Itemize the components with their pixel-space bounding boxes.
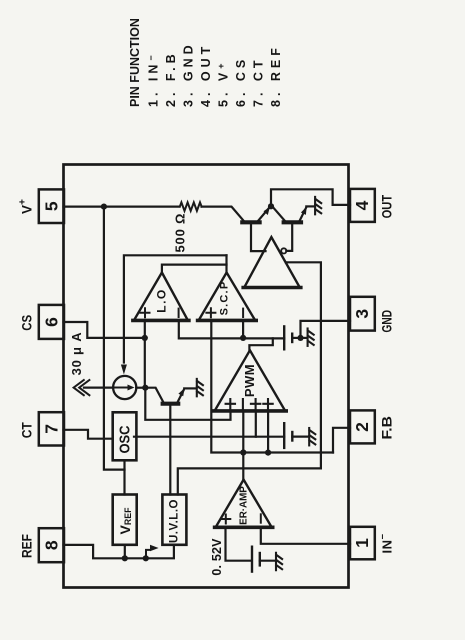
arrow chevrons current source output [74,380,90,395]
IC body outline [64,165,349,588]
pin 4 box [350,189,375,222]
wire Q3 base to UVLO [169,406,171,495]
UVLO box [162,495,186,545]
wire VREF bottom stub [124,545,126,559]
svg-text:L.O: L.O [155,288,169,313]
comparator U4 minus mark [260,514,262,522]
capacitor C2 at PWM [284,423,308,448]
wire driver feedback tap [178,262,321,494]
node S.C.P minus junction [240,335,246,341]
wire top rail above comparators [124,255,227,362]
wire Q1 base [251,224,266,251]
pin 1 box [350,527,375,560]
wire resistor to Q1 [202,207,244,221]
wire ER AMP plus input to reference [226,527,252,560]
comparator U2 S.C.P [198,273,257,321]
wire GND riser to pin 3 [301,321,351,338]
svg-text:7. CT: 7. CT [251,56,265,107]
wire CT from pin 7 to OSC [64,430,113,439]
wire V+ rail from pin 5 [64,206,180,208]
svg-text:OSC: OSC [116,425,133,453]
pin 6 box [39,305,64,339]
wire current source output left [84,387,113,389]
capacitor C1 near GND [284,326,300,349]
comparator U1 L.O [133,273,189,321]
comparator U2 plus mark [206,308,215,317]
wire L.O plus input / current source feed [144,322,146,388]
comparator U4 plus mark [221,515,230,524]
node PWM input 4 junction [265,450,271,456]
comparator U4 ER AMP [215,480,273,528]
comparator U3 input marks + - + + [226,399,273,408]
transistor Q3 [145,388,196,404]
svg-text:4: 4 [352,200,372,210]
svg-text:3: 3 [352,309,372,319]
svg-text:2: 2 [352,422,372,432]
wire ER AMP minus input to pin 1 [261,527,350,544]
regulator VREF box [113,495,137,545]
wire PWM output riser to cap line [249,338,272,350]
wire PWM input 3 stub [255,412,257,437]
wire current source to Q3 [136,387,145,389]
wire CS from pin 6 [64,322,145,338]
svg-text:6: 6 [42,317,62,327]
wire L.O minus to capacitor line [179,322,284,339]
ground G1 at Q2 emitter [315,197,321,214]
wire L.O output riser [162,265,227,273]
svg-text:REF: REF [19,534,34,558]
wire to ground G3 [301,337,307,339]
wire Q2 emitter to ground [306,205,314,207]
node CS junction [142,335,148,341]
svg-text:F.B: F.B [379,416,394,440]
svg-text:PWM: PWM [242,364,257,397]
svg-text:PIN FUNCTION: PIN FUNCTION [128,18,142,107]
comparator U1 plus mark [141,308,150,317]
wire OSC output to capacitor C2 [134,436,284,438]
svg-text:CT: CT [19,422,34,439]
pin 7 box [39,412,64,445]
svg-text:7: 7 [42,424,62,434]
svg-text:U.V.L.O: U.V.L.O [169,499,181,543]
wire OSC to VREF vertical [123,461,125,494]
node PWM input 2 junction [240,449,246,455]
svg-text:ER·AMP: ER·AMP [239,486,250,525]
svg-text:0. 52V: 0. 52V [210,538,224,576]
buffer U5 driver triangle [243,237,301,287]
transistor Q1 [242,207,270,222]
svg-text:500 Ω: 500 Ω [173,213,188,253]
node current source junction [142,385,148,391]
comparator U2 minus mark [242,309,244,317]
arrow into current source [121,365,127,375]
ground G2 at Q3 emitter [197,379,203,396]
svg-text:CS: CS [19,315,34,331]
pin 8 box [39,528,64,562]
wire Q2 base [286,224,292,251]
svg-text:S.C.P: S.C.P [219,281,231,316]
comparator U3 PWM [214,350,287,411]
wire PWM input 4 stub [267,412,269,453]
wire F.B from pin 2 [333,428,350,453]
svg-text:5: 5 [42,201,62,211]
wire S.C.P minus stub [242,322,244,338]
wire REF from pin 8 [64,545,174,559]
current source I1 30uA [113,376,136,399]
wire S.C.P output riser [225,255,227,272]
node V+ junction [101,204,107,210]
svg-text:3. GND: 3. GND [181,41,195,107]
svg-text:8: 8 [42,540,62,550]
node VREF junction [122,555,128,561]
oscillator OSC box [113,412,137,460]
ground G5 at battery [276,553,282,570]
wire current source to PWM input 1 [145,388,230,420]
transistor Q2 [273,207,307,223]
wire PWM input 2 vertical / ER AMP output riser [242,412,244,480]
svg-text:4. OUT: 4. OUT [199,43,213,107]
ground G3 at GND capacitor [308,329,314,346]
node REF arrow junction [143,555,149,561]
node Q1 emitter / Q2 collector [268,203,274,209]
arrow on REF line [146,545,159,559]
svg-text:OUT: OUT [379,194,394,218]
svg-text:2. F.B: 2. F.B [164,50,178,107]
pin 2 box [350,410,375,443]
svg-text:6. CS: 6. CS [234,56,248,107]
wire OUT from darlington to pin 4 [271,189,350,206]
svg-text:GND: GND [379,310,394,333]
wire S.C.P plus input long [211,322,333,453]
svg-text:8. REF: 8. REF [269,44,283,107]
battery V1 0.52V [252,547,275,572]
svg-text:1: 1 [352,538,372,548]
svg-text:30 μ A: 30 μ A [69,332,84,376]
node GND capacitor junction [297,335,303,341]
resistor R1 500 ohm [180,202,202,210]
comparator U1 minus mark [178,309,180,317]
inversion bubble on driver output [281,248,286,253]
ground G4 at capacitor C2 [309,428,315,445]
pin 3 box [350,297,375,331]
wire V+ vertical to OSC/VREF [104,207,125,470]
pin 5 box [39,189,64,223]
